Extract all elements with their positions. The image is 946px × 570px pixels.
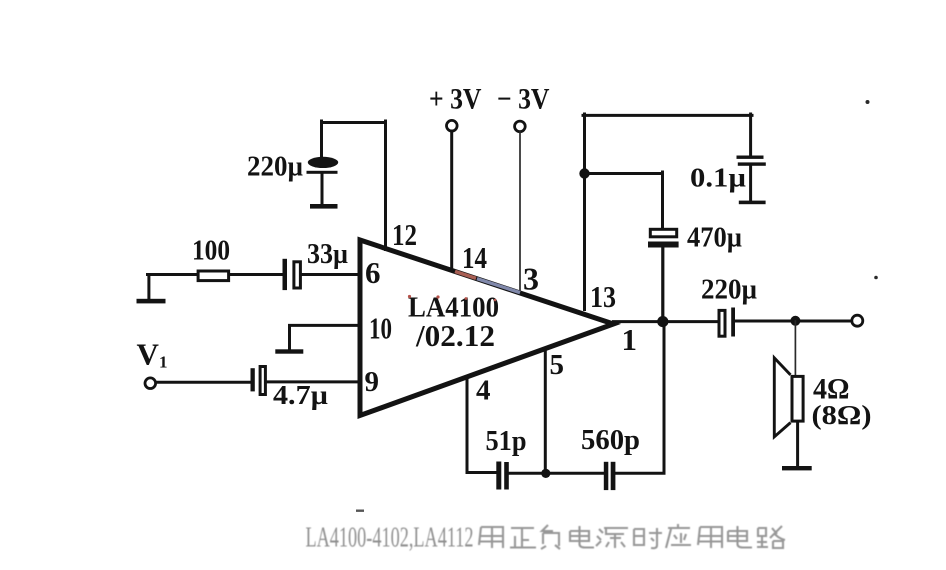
wire pin12 top loop bbox=[322, 121, 386, 250]
glyph lu bbox=[757, 526, 785, 548]
capacitor C 560p bbox=[581, 425, 640, 490]
caption latin part bbox=[306, 523, 474, 554]
capacitor C 0.1u bbox=[690, 114, 766, 204]
node speaker junction dot bbox=[790, 316, 800, 326]
wire C220u to output terminal bbox=[735, 320, 852, 323]
pin label 6 bbox=[365, 255, 381, 290]
wire junction to speaker bbox=[794, 321, 796, 375]
wire resistor to C 33u bbox=[230, 273, 283, 276]
wire C51p to junction bbox=[509, 472, 542, 475]
svg-text:6: 6 bbox=[365, 255, 381, 290]
wire pin 10 to ground bbox=[290, 325, 360, 349]
wire C33u to pin 6 bbox=[303, 273, 360, 276]
node output terminal bbox=[852, 315, 863, 326]
capacitor C 33u (series electrolytic) bbox=[283, 239, 349, 290]
svg-text:14: 14 bbox=[462, 240, 487, 275]
svg-text:13: 13 bbox=[590, 279, 616, 314]
glyph yong bbox=[479, 527, 503, 548]
svg-text:LA4100-4102,LA4112: LA4100-4102,LA4112 bbox=[306, 523, 474, 554]
capacitor C 51p bbox=[486, 426, 527, 490]
glyph fu bbox=[541, 525, 560, 549]
wire -3V to pin 3 bbox=[519, 132, 521, 291]
capacitor C 220u output (series electrolytic) bbox=[701, 275, 757, 337]
glyph zheng bbox=[510, 528, 536, 548]
wire +3V to pin 14 bbox=[450, 131, 453, 270]
scan speck above caption bbox=[356, 510, 364, 512]
scan speck top right bbox=[866, 100, 870, 104]
ground (speaker) bbox=[782, 466, 812, 470]
glyph dian2 bbox=[728, 526, 752, 548]
capacitor C 4.7u (series electrolytic) bbox=[251, 367, 329, 411]
node -3V supply terminal bbox=[497, 84, 550, 132]
svg-text:12: 12 bbox=[392, 217, 417, 252]
glyph yong2 bbox=[698, 527, 722, 548]
wire C560p up to output node bbox=[615, 322, 664, 473]
svg-text:560p: 560p bbox=[581, 425, 640, 456]
svg-text:1: 1 bbox=[159, 353, 168, 372]
ground (pin 10) bbox=[275, 349, 303, 353]
svg-text:3: 3 bbox=[523, 261, 539, 297]
pin label 1 bbox=[622, 322, 638, 357]
wire speaker to ground bbox=[796, 423, 799, 466]
pin label 4 bbox=[476, 375, 491, 407]
node V1 input terminal bbox=[137, 337, 168, 389]
scan artifact red segment on top edge bbox=[455, 271, 476, 278]
capacitor C 220u (top left, electrolytic to ground) bbox=[247, 121, 338, 204]
node +3V supply terminal bbox=[429, 84, 482, 132]
wire C4.7u to pin 9 bbox=[267, 380, 359, 383]
node bottom junction dot bbox=[541, 469, 550, 478]
svg-text:51p: 51p bbox=[486, 426, 527, 457]
svg-text:10: 10 bbox=[369, 311, 392, 346]
wire pin 4 down bbox=[467, 377, 496, 473]
wire V1 to C 4.7u bbox=[157, 381, 252, 384]
speaker LS 4ohm bbox=[774, 358, 871, 437]
svg-text:1: 1 bbox=[622, 322, 638, 357]
wire output from pin 1 bbox=[614, 320, 718, 323]
svg-text:/02.12: /02.12 bbox=[415, 319, 495, 353]
resistor R 100 bbox=[192, 236, 230, 281]
pin label 3 bbox=[523, 261, 539, 297]
node junction dot (pin13 rail / 470u tap) bbox=[579, 168, 589, 178]
wire pin 13 riser and top rail bbox=[583, 114, 752, 310]
glyph dian bbox=[570, 526, 594, 548]
scan artifact red specks above LA4100 bbox=[408, 295, 496, 301]
svg-text:0.1µ: 0.1µ bbox=[690, 163, 746, 193]
svg-text:− 3V: − 3V bbox=[497, 84, 550, 116]
svg-text:4.7µ: 4.7µ bbox=[273, 380, 328, 410]
pin label 5 bbox=[550, 349, 565, 381]
svg-text:470µ: 470µ bbox=[687, 223, 742, 254]
svg-text:5: 5 bbox=[550, 349, 565, 381]
ground (input resistor) bbox=[137, 275, 166, 304]
capacitor C 470u (electrolytic) bbox=[648, 172, 742, 322]
wire junction to C560p bbox=[550, 472, 604, 475]
wire ground to resistor bbox=[148, 273, 198, 276]
svg-text:V: V bbox=[137, 337, 160, 372]
pin label 13 bbox=[590, 279, 616, 314]
op-amp U1 LA4100 triangle bbox=[360, 240, 614, 416]
svg-text:+ 3V: + 3V bbox=[429, 84, 482, 116]
ground (220u) bbox=[310, 204, 338, 209]
svg-text:4: 4 bbox=[476, 375, 491, 407]
scan speck right middle bbox=[874, 276, 878, 280]
pin label 9 bbox=[365, 366, 380, 398]
wire junction to 470u bbox=[585, 172, 663, 175]
svg-text:33µ: 33µ bbox=[307, 239, 348, 270]
svg-text:9: 9 bbox=[365, 366, 380, 398]
caption CJK hand-drawn strokes bbox=[479, 524, 785, 549]
svg-text:100: 100 bbox=[192, 236, 230, 267]
scan artifact blue segment on top edge bbox=[477, 279, 520, 293]
svg-text:220µ: 220µ bbox=[247, 152, 303, 183]
svg-text:220µ: 220µ bbox=[701, 275, 757, 306]
pin label 10 bbox=[369, 311, 392, 346]
pin label 14 bbox=[462, 240, 487, 275]
wire pin 5 down bbox=[544, 351, 547, 473]
svg-text:(8Ω): (8Ω) bbox=[812, 400, 872, 430]
node output junction dot bbox=[657, 316, 668, 327]
glyph ying bbox=[666, 524, 691, 548]
pin label 12 bbox=[392, 217, 417, 252]
glyph shi bbox=[634, 528, 662, 548]
glyph yuan bbox=[596, 528, 628, 548]
